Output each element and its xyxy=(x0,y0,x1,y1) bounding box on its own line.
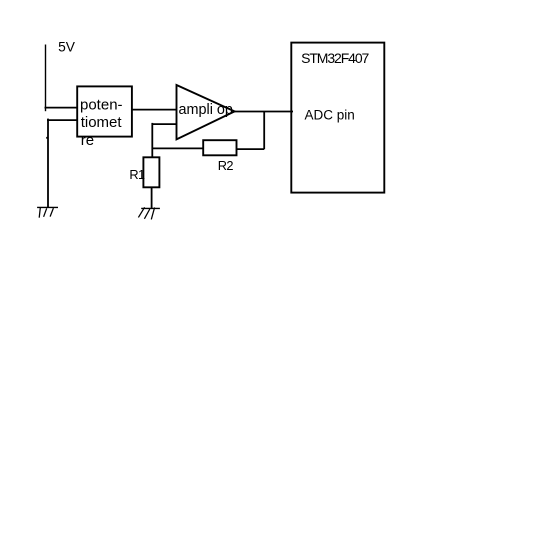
svg-text:re: re xyxy=(81,132,94,149)
svg-text:poten-: poten- xyxy=(80,96,123,113)
svg-text:tiomet: tiomet xyxy=(81,114,123,131)
svg-text:ampli op: ampli op xyxy=(179,102,233,118)
svg-text:ADC pin: ADC pin xyxy=(305,107,355,122)
svg-text:5V: 5V xyxy=(58,40,76,55)
svg-text:STM32F407: STM32F407 xyxy=(301,50,369,66)
svg-text:R1: R1 xyxy=(129,167,145,182)
svg-text:R2: R2 xyxy=(218,158,234,173)
